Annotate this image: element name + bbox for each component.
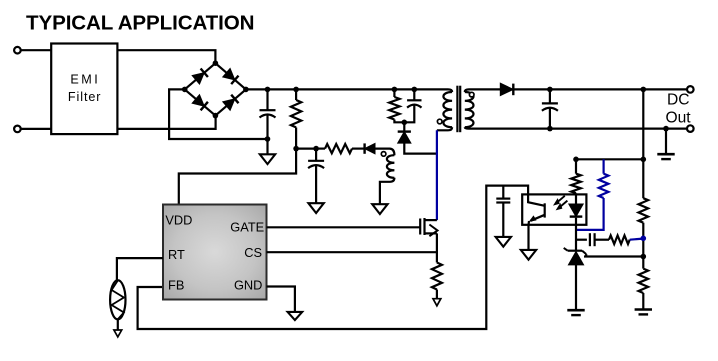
output terminal DC+: [687, 86, 694, 93]
svg-text:RT: RT: [168, 247, 185, 262]
wire: [576, 239, 587, 241]
opto transistor: [528, 194, 545, 205]
wire: [185, 89, 216, 115]
node bridge left: [182, 87, 188, 93]
wire: [21, 49, 51, 51]
wire: [642, 223, 644, 269]
wire: [502, 186, 504, 199]
wire (blue): [630, 239, 644, 240]
wire: [296, 148, 316, 150]
capacitor C4: [542, 102, 558, 104]
wire: [393, 89, 395, 97]
resistor R7: [571, 174, 581, 194]
ground arrow: [114, 330, 122, 337]
wire: [185, 63, 216, 89]
resistor R1: [291, 100, 301, 127]
node: [663, 126, 669, 132]
node: [573, 157, 579, 163]
input terminal top: [14, 47, 21, 54]
wire: [469, 128, 687, 130]
secondary phase dot: [469, 92, 474, 97]
node: [402, 120, 408, 126]
wire: [267, 287, 295, 312]
wire: [267, 251, 437, 253]
wire: [352, 148, 364, 150]
ground: [521, 250, 536, 260]
svg-text:DC: DC: [667, 92, 690, 109]
wire: [266, 115, 268, 139]
output terminal DC-: [687, 125, 694, 132]
EMI filter block: [51, 44, 117, 135]
resistor R9: [609, 235, 630, 244]
diode D1: [192, 73, 204, 84]
wire: [436, 233, 438, 262]
capacitor C6: [589, 233, 591, 246]
wire: [117, 50, 215, 63]
node bridge top: [213, 60, 219, 66]
wire: [267, 226, 421, 228]
transistor Q1: [419, 219, 421, 235]
svg-text:EMI: EMI: [70, 72, 97, 86]
wire: [549, 89, 551, 103]
optocoupler U2 box: [522, 194, 586, 224]
svg-text:Out: Out: [666, 110, 692, 127]
wire: [549, 108, 551, 128]
capacitor C3: [407, 99, 421, 101]
wire: [448, 89, 452, 92]
node: [547, 126, 553, 132]
wire: [394, 120, 404, 123]
wire: [465, 127, 469, 128]
wire: [404, 143, 437, 154]
capacitor C2: [308, 160, 324, 162]
node: [313, 146, 319, 152]
input terminal bottom: [14, 126, 21, 133]
wire (blue): [602, 159, 604, 173]
node: [265, 136, 271, 142]
earth ground: [567, 309, 584, 312]
wire: [295, 127, 297, 148]
wire: [665, 129, 667, 155]
wire: [117, 319, 119, 330]
thermistor RT1: [110, 280, 125, 319]
ground arrow: [433, 299, 441, 306]
node: [641, 87, 647, 93]
capacitor C5: [496, 198, 510, 200]
opto LED: [569, 204, 583, 217]
wire: [404, 105, 414, 122]
node: [641, 157, 647, 163]
wire: [266, 139, 268, 154]
node bridge bottom: [213, 113, 219, 119]
primary phase dot: [437, 119, 442, 124]
wire: [169, 89, 267, 139]
wire: [403, 122, 405, 131]
wire: [117, 116, 215, 129]
ground: [496, 237, 511, 247]
wire: [436, 290, 438, 299]
winding phase dot: [381, 152, 386, 157]
resistor R3: [389, 97, 399, 120]
transformer T1 secondary: [465, 92, 474, 127]
wire: [575, 159, 577, 173]
diode D2: [223, 69, 235, 80]
node bridge right: [243, 87, 249, 93]
wire: [514, 88, 687, 90]
svg-text:CS: CS: [244, 245, 262, 260]
diode D7: [500, 83, 513, 95]
node: [547, 87, 553, 93]
capacitor C1: [260, 109, 276, 111]
wire: [575, 265, 577, 310]
wire: [117, 258, 163, 280]
resistor R4: [432, 263, 442, 290]
node: [293, 146, 299, 152]
transformer T1 primary: [443, 92, 452, 127]
earth ground: [635, 308, 652, 311]
wire: [295, 89, 297, 100]
wire: [246, 88, 448, 90]
aux winding: [387, 155, 394, 178]
wire: [316, 148, 325, 150]
wire: [21, 128, 51, 130]
wire: [179, 149, 296, 205]
wire: [315, 166, 317, 203]
ground: [308, 203, 323, 213]
resistor R5: [639, 198, 649, 223]
diode D6: [398, 132, 411, 144]
ground: [260, 154, 275, 164]
wire: [465, 89, 469, 92]
node: [641, 236, 647, 242]
wire: [315, 149, 317, 161]
wire: [215, 63, 246, 89]
node: [392, 87, 398, 93]
node: [412, 87, 418, 93]
diode D3: [192, 95, 204, 106]
wire: [575, 193, 577, 204]
wire: [576, 158, 643, 160]
wire: [575, 218, 577, 251]
svg-text:VDD: VDD: [165, 213, 192, 228]
node: [641, 254, 647, 260]
svg-text:GND: GND: [234, 278, 262, 293]
resistor R8 (blue): [599, 174, 609, 198]
wire: [642, 293, 644, 310]
diode D5: [365, 143, 375, 153]
opto light arrows: [557, 196, 565, 203]
TL431 U3: [568, 250, 582, 252]
node: [265, 87, 271, 93]
wire: [642, 89, 644, 198]
ground: [372, 204, 387, 214]
svg-text:TYPICAL APPLICATION: TYPICAL APPLICATION: [26, 12, 255, 35]
svg-text:FB: FB: [168, 278, 184, 293]
node: [293, 87, 299, 93]
svg-text:GATE: GATE: [230, 219, 264, 234]
wire: [266, 89, 268, 110]
resistor R2: [325, 144, 352, 153]
wire: [585, 254, 587, 256]
wire: [380, 178, 395, 204]
wire: [437, 127, 452, 130]
earth ground: [657, 153, 674, 156]
wire drain (blue): [436, 130, 438, 220]
wire: [375, 149, 394, 156]
svg-text:Filter: Filter: [68, 90, 101, 104]
wire: [215, 89, 246, 115]
transformer core: [456, 86, 458, 133]
diode D4: [223, 99, 235, 110]
wire: [595, 239, 609, 241]
ground: [288, 312, 303, 320]
wire: [469, 88, 500, 90]
wire: [413, 89, 415, 100]
wire: [502, 203, 504, 237]
wire (blue): [576, 198, 604, 230]
wire: [138, 186, 528, 329]
resistor R6: [639, 269, 649, 293]
